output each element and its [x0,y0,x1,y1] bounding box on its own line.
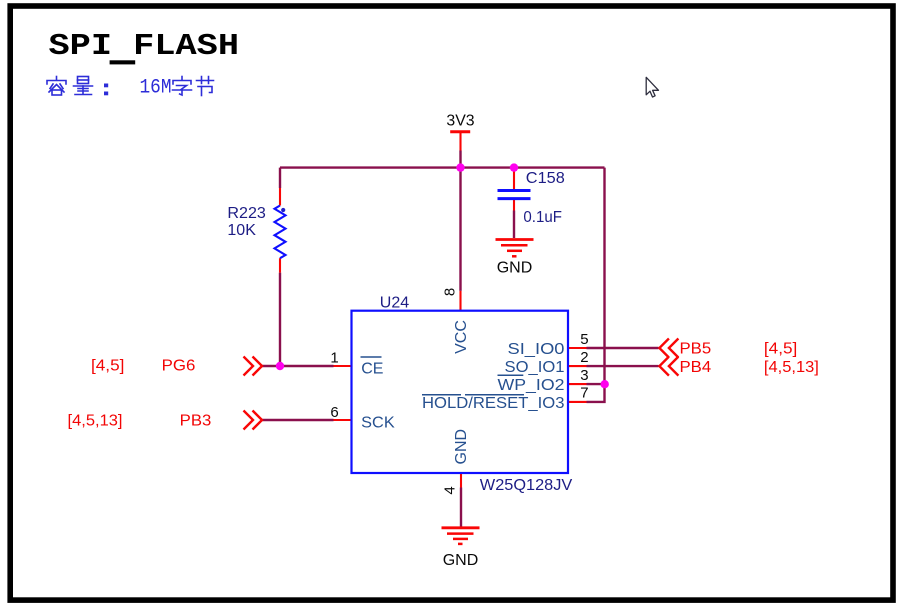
svg-text:U24: U24 [380,295,409,312]
svg-text:PB3: PB3 [180,413,212,430]
svg-text:SCK: SCK [361,414,395,431]
svg-text:10K: 10K [227,222,256,239]
svg-text:6: 6 [330,404,338,421]
svg-text:4: 4 [442,486,459,494]
svg-text:3: 3 [580,367,588,384]
svg-text:SO_IO1: SO_IO1 [505,359,565,376]
svg-text:[4,5,13]: [4,5,13] [764,359,819,376]
svg-text:5: 5 [580,331,588,348]
svg-text:C158: C158 [526,170,565,187]
svg-text:16M: 16M [140,77,172,100]
svg-text:VCC: VCC [453,320,470,354]
svg-text:GND: GND [453,429,470,465]
svg-text:2: 2 [580,349,588,366]
svg-text:CE: CE [361,360,383,377]
svg-text:[4,5]: [4,5] [91,358,124,375]
svg-text:1: 1 [330,349,338,366]
svg-text:[4,5,13]: [4,5,13] [68,413,123,430]
svg-text:PG6: PG6 [162,358,196,375]
svg-text:GND: GND [497,259,533,276]
svg-text:HOLD/RESET_IO3: HOLD/RESET_IO3 [422,395,565,412]
svg-text:0.1uF: 0.1uF [523,209,562,226]
svg-text:WP_IO2: WP_IO2 [498,377,565,394]
svg-text:W25Q128JV: W25Q128JV [480,477,573,494]
svg-text:[4,5]: [4,5] [764,341,797,358]
svg-text:PB4: PB4 [680,359,712,376]
svg-text:PB5: PB5 [680,341,712,358]
svg-text:SI_IO0: SI_IO0 [508,341,565,358]
svg-text:7: 7 [580,385,588,402]
svg-text:3V3: 3V3 [446,113,474,130]
svg-text:R223: R223 [227,205,266,222]
svg-text:GND: GND [443,552,479,569]
svg-text:8: 8 [442,288,459,296]
svg-text:SPI_FLASH: SPI_FLASH [49,30,240,64]
